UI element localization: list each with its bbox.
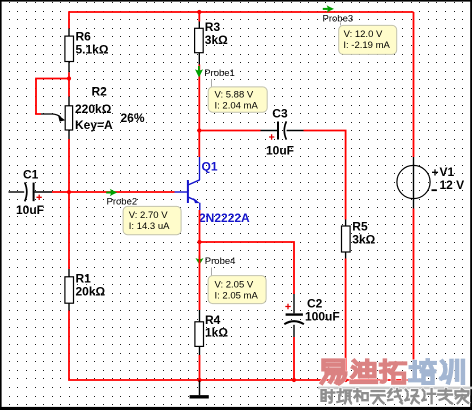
svg-text:Probe2: Probe2 (107, 196, 138, 207)
svg-text:10uF: 10uF (16, 203, 44, 217)
node emitter junction (197, 240, 201, 244)
ground symbol (190, 380, 209, 397)
wire R4 bottom to ground bus (199, 355, 201, 380)
probe tooltip Probe4 (208, 268, 266, 304)
svg-text:Probe4: Probe4 (205, 256, 236, 267)
svg-text:R6: R6 (76, 30, 92, 44)
wire collector node to Q1 collector (198, 131, 200, 158)
probe tooltip Probe2 (123, 206, 181, 234)
wire emitter node down to R4 (199, 242, 201, 310)
wire base node to Q1 base (69, 191, 175, 193)
svg-text:V: 12.0 V: V: 12.0 V (344, 29, 383, 40)
node base-bias junction (67, 76, 71, 80)
probe Probe2 arrow (106, 189, 137, 208)
potentiometer R2 (41, 84, 145, 139)
probe tooltip Probe1 (208, 79, 267, 112)
svg-text:5.1kΩ: 5.1kΩ (76, 43, 109, 57)
svg-text:C3: C3 (272, 106, 288, 120)
probe Probe1 arrow (195, 66, 235, 79)
wire ground bus middle (200, 379, 346, 381)
watermark logo text line1 (322, 360, 463, 383)
resistor R4 (195, 310, 228, 355)
wire top bus corner down to V1 (413, 12, 415, 157)
wire top bus Vcc (69, 11, 414, 13)
probe tooltip Probe3 (339, 23, 397, 55)
svg-text:+: + (432, 165, 439, 179)
svg-text:26%: 26% (121, 111, 145, 125)
wire C3 to R5 top (304, 131, 346, 220)
svg-text:12 V: 12 V (440, 178, 465, 192)
svg-text:Key=A: Key=A (75, 118, 113, 132)
svg-text:3kΩ: 3kΩ (352, 233, 375, 247)
svg-text:I: 2.05 mA: I: 2.05 mA (215, 291, 259, 302)
wire C2 bottom to ground bus (293, 337, 295, 380)
probe Probe3 arrow (323, 5, 354, 24)
svg-text:220kΩ: 220kΩ (75, 102, 112, 116)
svg-text:V1: V1 (440, 165, 455, 179)
node ground bus junction R4 (197, 378, 201, 382)
svg-text:R2: R2 (92, 84, 108, 98)
svg-text:Probe3: Probe3 (323, 13, 354, 24)
svg-text:V: 2.05 V: V: 2.05 V (215, 280, 254, 291)
svg-text:V: 2.70 V: V: 2.70 V (129, 210, 168, 221)
svg-text:3kΩ: 3kΩ (205, 33, 228, 47)
wire R6 bottom to R2 (68, 72, 70, 96)
svg-text:100uF: 100uF (305, 309, 340, 323)
wire collector node to C3 (199, 130, 260, 132)
svg-text:C1: C1 (23, 168, 39, 182)
wire emitter node to C2 (200, 242, 295, 294)
wire V1 bottom to ground bus (345, 209, 414, 381)
wire R2 bottom to base node (68, 139, 70, 192)
resistor R5 (342, 220, 376, 259)
wire base node down to R1 (68, 192, 70, 269)
watermark text line2 (322, 389, 469, 403)
voltage source V1 12V (397, 157, 464, 209)
resistor R6 (65, 29, 109, 73)
capacitor C3 (261, 106, 304, 157)
wire R3 bottom to collector node (198, 65, 200, 131)
wire left column x69 top (R6 branch) (68, 11, 70, 28)
wire R1 bottom to ground bus (69, 311, 200, 381)
svg-text:1kΩ: 1kΩ (205, 326, 228, 340)
resistor R3 (195, 12, 229, 65)
svg-text:V: 5.88 V: V: 5.88 V (215, 89, 254, 100)
wire C1 to base node (52, 191, 69, 193)
probe Probe4 arrow (196, 256, 236, 268)
svg-text:Probe1: Probe1 (204, 68, 235, 79)
svg-text:Q1: Q1 (202, 160, 218, 174)
node R3 top junction (197, 10, 201, 14)
wire pot wiper branch (36, 79, 70, 115)
capacitor C1 (9, 168, 53, 218)
svg-text:I: -2.19 mA: I: -2.19 mA (343, 40, 390, 51)
resistor R1 (65, 269, 106, 311)
node ground bus junction R5 (344, 378, 348, 382)
svg-text:I: 14.3 uA: I: 14.3 uA (129, 221, 170, 232)
svg-text:2N2222A: 2N2222A (199, 211, 250, 225)
node ground bus junction C2 (292, 378, 296, 382)
node collector junction (197, 128, 201, 132)
watermark band (318, 387, 472, 390)
wire Q1 emitter down to emitter node (199, 210, 201, 242)
node base junction (67, 190, 71, 194)
svg-text:20kΩ: 20kΩ (76, 284, 106, 298)
svg-text:I: 2.04 mA: I: 2.04 mA (215, 100, 259, 111)
svg-text:10uF: 10uF (266, 144, 294, 158)
capacitor C2 (284, 294, 339, 337)
transistor Q1 2N2222A (175, 157, 251, 225)
wire R5 bottom to ground bus (345, 259, 347, 381)
